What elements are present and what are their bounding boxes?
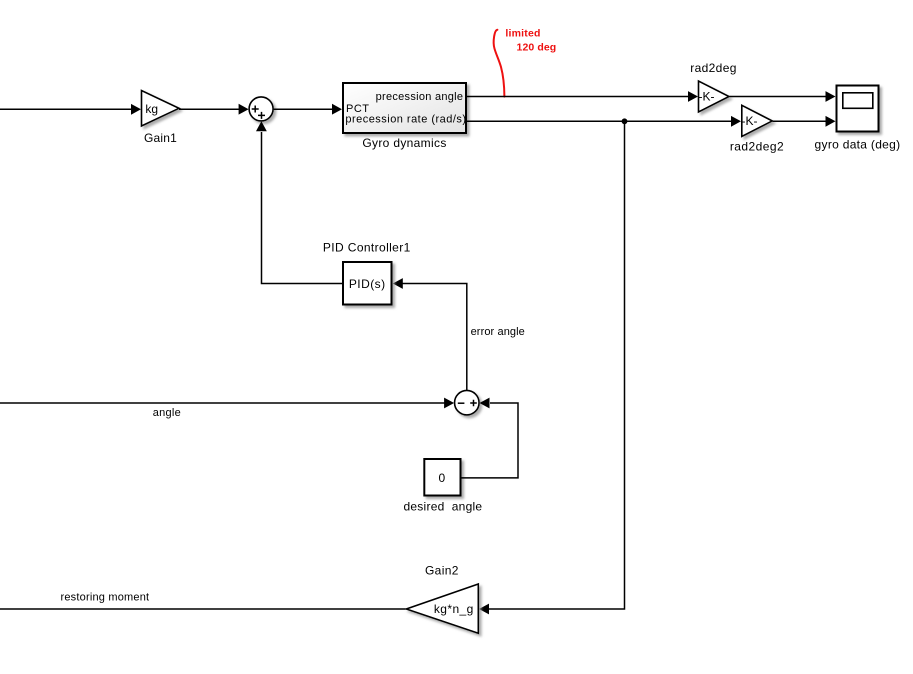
svg-text:120 deg: 120 deg xyxy=(517,41,557,53)
svg-text:Gyro dynamics: Gyro dynamics xyxy=(362,136,446,150)
subsystem Gyro dynamics xyxy=(343,83,466,133)
arrowhead into Sum2 right xyxy=(480,398,490,409)
sign plus (right input) xyxy=(470,400,477,407)
wire rad2deg to Scope xyxy=(730,96,827,98)
svg-text:-K-: -K- xyxy=(699,90,715,104)
svg-text:restoring moment: restoring moment xyxy=(61,591,150,603)
arrowhead into PID right input xyxy=(393,278,403,289)
constant desired angle xyxy=(424,459,460,496)
svg-text:kg*n_g: kg*n_g xyxy=(434,602,474,616)
arrowhead into Sum1 bottom xyxy=(256,121,267,131)
wire Gyro out2 to rad2deg2 xyxy=(467,120,732,122)
gain rad2deg2 xyxy=(742,105,772,136)
svg-text:kg: kg xyxy=(145,102,158,116)
wire Sum2 out up to PID input, label error angle xyxy=(402,284,467,391)
annotation red callout curve xyxy=(494,30,505,97)
arrowhead into rad2deg xyxy=(688,91,698,102)
svg-text:gyro data (deg): gyro data (deg) xyxy=(815,137,901,151)
svg-text:rad2deg: rad2deg xyxy=(690,61,737,75)
arrowhead into Gain2 xyxy=(479,604,489,615)
arrowhead into Gain1 xyxy=(131,104,141,115)
scope screen xyxy=(843,93,873,109)
gain rad2deg xyxy=(699,81,730,112)
svg-text:Gain1: Gain1 xyxy=(144,131,177,145)
block PID Controller1 xyxy=(343,262,392,305)
wire junction down to Gain2 xyxy=(489,121,625,609)
wire Sum1 to Gyro dynamics xyxy=(274,108,333,110)
svg-text:error angle: error angle xyxy=(471,326,525,338)
arrowhead into Sum2 left xyxy=(444,398,454,409)
svg-text:rad2deg2: rad2deg2 xyxy=(730,140,784,154)
arrowhead into Scope in2 xyxy=(826,116,836,127)
junction dot xyxy=(622,118,628,124)
gain Gain2 xyxy=(406,584,478,633)
sign plus (bottom input) xyxy=(258,112,265,119)
svg-text:desired angle: desired angle xyxy=(403,499,482,513)
svg-text:-K-: -K- xyxy=(742,114,758,128)
svg-text:Gain2: Gain2 xyxy=(425,564,459,578)
wire Gyro out1 to rad2deg xyxy=(467,96,689,98)
wire Gain1 to Sum1 xyxy=(179,108,239,110)
svg-text:0: 0 xyxy=(438,471,445,485)
gain Gain1 xyxy=(142,91,180,127)
svg-text:angle: angle xyxy=(153,407,181,419)
sign minus (left input) xyxy=(458,402,465,404)
arrowhead into Scope in1 xyxy=(826,91,836,102)
wire rad2deg2 to Scope xyxy=(773,120,827,122)
wire angle input to Sum2 xyxy=(0,402,445,404)
arrowhead into Gyro dynamics xyxy=(332,104,342,115)
svg-text:precession angle: precession angle xyxy=(376,91,464,103)
wire PID out to Sum1 bottom xyxy=(262,132,343,284)
svg-text:limited: limited xyxy=(505,27,540,39)
wire input to Gain1 xyxy=(0,108,132,110)
scope gyro data (deg) xyxy=(837,86,879,132)
sum Sum2 xyxy=(455,390,480,415)
svg-text:precession rate (rad/s): precession rate (rad/s) xyxy=(345,114,466,126)
sign plus (left input) xyxy=(252,106,259,113)
sum Sum1 xyxy=(249,97,273,121)
arrowhead into rad2deg2 xyxy=(731,116,741,127)
arrowhead into Sum1 xyxy=(239,104,249,115)
wire constant to Sum2 right input xyxy=(462,403,519,478)
svg-text:PID(s): PID(s) xyxy=(349,277,386,291)
svg-text:PID Controller1: PID Controller1 xyxy=(323,240,411,254)
wire Gain2 output restoring moment xyxy=(0,608,406,610)
